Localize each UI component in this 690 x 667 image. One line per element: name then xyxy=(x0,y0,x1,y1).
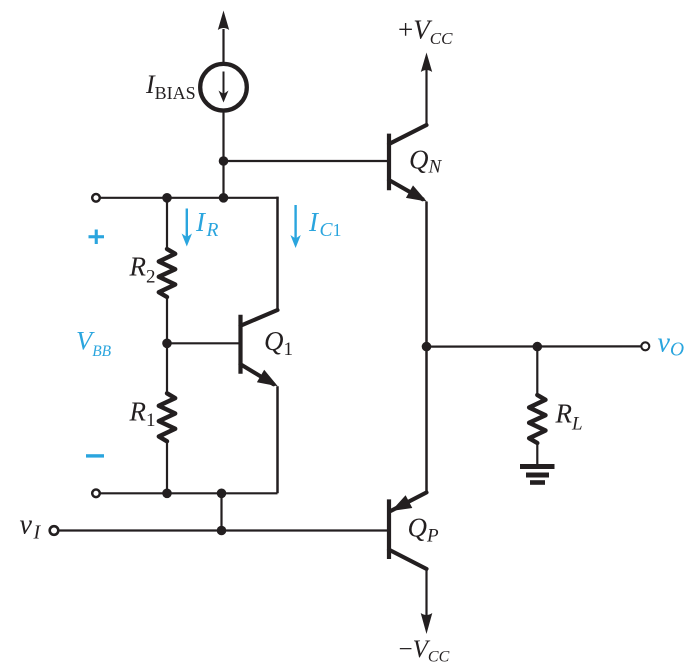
transistor Q1 xyxy=(241,310,278,386)
ground xyxy=(520,467,555,483)
wire: output row xyxy=(427,345,641,347)
node: junction of I_BIAS wire and Q_N base xyxy=(219,156,229,166)
wire: output node down to Q_P emitter elbow xyxy=(425,347,428,493)
transistor Q_N xyxy=(389,125,427,202)
svg-text:vI: vI xyxy=(20,510,42,544)
current arrow I_R xyxy=(182,209,192,247)
svg-text:QN: QN xyxy=(409,145,443,178)
node: output row / R_L column xyxy=(533,342,543,352)
node: input row / link column xyxy=(217,526,227,536)
wire: I_BIAS source to top supply (arrow up) xyxy=(218,11,229,65)
terminal: top left (+ side of V_BB) xyxy=(92,194,100,202)
wire: v_I to Q_P base xyxy=(60,529,390,531)
wire: current source down to top node row xyxy=(222,111,224,198)
wire: top row to R2 xyxy=(166,198,168,250)
label - (blue minus) xyxy=(86,454,104,457)
svg-text:IC1: IC1 xyxy=(308,207,342,241)
node: V_BB midpoint xyxy=(162,339,172,349)
svg-text:RL: RL xyxy=(555,399,583,435)
wire: top terminal row xyxy=(101,197,278,199)
svg-text:+VCC: +VCC xyxy=(398,15,453,49)
wire: link from bottom row to input row xyxy=(220,493,222,530)
wire: Q1 emitter down to bottom row xyxy=(276,386,279,493)
transistor Q_P xyxy=(389,492,427,569)
terminal: bottom left (- side of V_BB) xyxy=(92,490,100,498)
wire: R_L to ground xyxy=(536,443,538,464)
wire: Q_N emitter down to output node xyxy=(425,202,428,347)
node: bottom row / R1 column xyxy=(162,489,172,499)
current source I_BIAS xyxy=(200,64,247,111)
node: output xyxy=(422,342,432,352)
svg-text:Q1: Q1 xyxy=(264,326,293,360)
terminal: v_I input xyxy=(50,526,59,535)
svg-text:vO: vO xyxy=(658,328,685,361)
node: top row / bias column xyxy=(219,193,229,203)
resistor R2 xyxy=(159,249,175,297)
wire: bottom terminal row xyxy=(101,492,278,494)
svg-text:IR: IR xyxy=(195,207,219,241)
current arrow I_C1 xyxy=(290,205,300,248)
resistor R1 xyxy=(159,393,175,441)
terminal: v_O output xyxy=(641,342,649,350)
svg-text:VBB: VBB xyxy=(76,326,112,361)
wire: node to Q_N base xyxy=(224,160,390,162)
wire: R1 to bottom row xyxy=(166,441,168,493)
wire: V_BB node to R1 xyxy=(166,343,168,394)
wire: R2 to V_BB node xyxy=(166,296,168,343)
svg-text:IBIAS: IBIAS xyxy=(145,70,196,103)
svg-text:QP: QP xyxy=(408,513,440,547)
wire: output row down to R_L xyxy=(536,347,538,396)
wire: Q_N collector to +VCC (arrow up) xyxy=(421,53,432,126)
wire: V_BB node to Q1 base xyxy=(167,342,241,344)
wire: Q_P collector to -VCC (arrow down) xyxy=(421,569,433,634)
resistor R_L xyxy=(529,395,545,443)
node: bottom row / link column xyxy=(217,489,227,499)
svg-text:R2: R2 xyxy=(129,252,156,288)
wire: Q1 collector up to top row xyxy=(276,197,279,310)
svg-text:R1: R1 xyxy=(129,397,156,432)
node: top row / R2 column xyxy=(162,193,172,203)
label + (blue) xyxy=(89,230,105,245)
svg-text:−VCC: −VCC xyxy=(399,636,450,666)
